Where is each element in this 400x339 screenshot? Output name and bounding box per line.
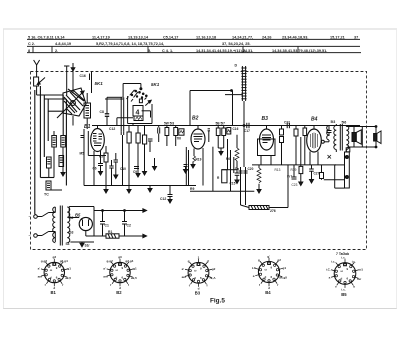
svg-text:ak,5: ak,5	[65, 276, 71, 280]
svg-text:13,19,13,14: 13,19,13,14	[128, 36, 149, 40]
svg-text:ak,5: ak,5	[131, 276, 137, 280]
capacitor C6	[93, 160, 104, 175]
svg-text:C12: C12	[109, 127, 115, 131]
svg-text:R: R	[217, 176, 220, 180]
svg-text:d: d	[194, 276, 196, 280]
svg-text:2.: 2.	[55, 49, 58, 53]
svg-text:am: am	[182, 275, 187, 279]
svg-text:d: d	[50, 276, 52, 280]
tube B4	[307, 117, 322, 165]
svg-text:ak,g5: ak,g5	[279, 276, 287, 280]
svg-text:ω: ω	[265, 268, 268, 272]
svg-text:d: d	[341, 277, 343, 281]
heater rail	[70, 242, 94, 248]
svg-text:9: 9	[122, 266, 124, 270]
hatched resistor to ground	[257, 165, 261, 193]
svg-text:23,34,46,18,93.: 23,34,46,18,93.	[282, 36, 308, 40]
tube B2	[191, 116, 205, 159]
svg-text:i.c.: i.c.	[352, 259, 356, 263]
svg-text:i.c.: i.c.	[331, 259, 335, 263]
oscillator bracket	[123, 84, 142, 91]
tuning gang C1a	[57, 88, 86, 118]
resistor + ground x300	[299, 137, 303, 186]
HT+ rail	[94, 209, 147, 212]
svg-text:B2: B2	[116, 290, 122, 295]
svg-text:am: am	[103, 275, 108, 279]
svg-text:B1: B1	[51, 290, 57, 295]
B3 screen caps C16 C20	[235, 126, 254, 208]
wire switch top to bracket	[122, 90, 124, 97]
parts table row 1 text	[28, 36, 358, 40]
svg-text:24,26: 24,26	[262, 36, 272, 40]
svg-text:Da: Da	[235, 167, 239, 171]
components right of B2	[216, 121, 239, 169]
band switch contacts	[127, 90, 152, 106]
svg-text:B5: B5	[341, 292, 347, 297]
coil L1	[52, 131, 57, 178]
dropper ladder resistor	[235, 64, 247, 127]
tube base diagram B1	[38, 255, 72, 295]
svg-text:11,4,17,19: 11,4,17,19	[92, 36, 110, 40]
left column wires	[35, 86, 67, 214]
filter capacitor C2	[122, 211, 131, 237]
svg-text:B1: B1	[84, 124, 91, 130]
svg-text:~: ~	[29, 215, 31, 219]
svg-text:ω: ω	[116, 268, 119, 272]
svg-text:37: 37	[354, 36, 358, 40]
svg-text:R19: R19	[196, 158, 202, 162]
svg-text:5,R2,7,79,14,71,6,8, 14, 18,73: 5,R2,7,79,14,71,6,8, 14, 18,73,75,72,14,	[96, 42, 164, 46]
ground	[136, 170, 140, 177]
svg-text:C17: C17	[244, 129, 250, 133]
svg-text:6: 6	[347, 277, 349, 281]
svg-text:g1: g1	[133, 267, 137, 271]
svg-text:C16: C16	[233, 127, 239, 131]
svg-text:R13: R13	[275, 168, 281, 172]
svg-text:R5: R5	[99, 155, 103, 159]
coil TC	[44, 181, 62, 197]
svg-text:f: f	[45, 283, 47, 287]
oscillator box	[128, 96, 152, 124]
svg-text:B2: B2	[192, 116, 199, 122]
svg-text:g: g	[188, 259, 190, 263]
external speaker LS2	[374, 127, 381, 148]
tube base diagram B3	[182, 255, 217, 295]
IF cluster boxes	[120, 126, 153, 186]
svg-text:C23: C23	[292, 183, 298, 187]
B2 cathode cluster	[184, 147, 213, 192]
svg-text:tar: tar	[357, 277, 362, 281]
parts table row 2 text	[28, 42, 251, 46]
svg-text:g': g'	[207, 259, 210, 263]
svg-text:g2,g4: g2,g4	[60, 259, 68, 263]
wire gang2 link	[117, 118, 133, 126]
svg-text:5 16. C6,7,8,11 L9,14: 5 16. C6,7,8,11 L9,14	[28, 36, 65, 40]
tone capacitor	[327, 126, 332, 159]
loudspeaker LS1	[352, 127, 361, 148]
component x321	[320, 165, 324, 180]
svg-text:C27: C27	[314, 172, 320, 176]
B1 grid IF coil	[84, 93, 91, 129]
svg-text:f: f	[62, 283, 64, 287]
svg-text:B4: B4	[311, 117, 318, 123]
svg-text:am: am	[38, 275, 43, 279]
ground	[114, 153, 119, 179]
box R-coupling	[217, 170, 237, 183]
svg-text:f: f	[207, 284, 209, 288]
wires to external speaker	[346, 126, 377, 148]
svg-text:ω: ω	[341, 269, 344, 273]
antenna	[34, 60, 40, 77]
capacitor C12g to ground	[160, 186, 173, 204]
svg-text:C 2.: C 2.	[28, 42, 35, 46]
svg-text:rk,A: rk,A	[210, 276, 217, 280]
svg-text:C8: C8	[100, 110, 104, 114]
output transformer T2	[331, 120, 349, 152]
lightning arrestor	[34, 77, 45, 95]
capacitor C17 series	[244, 123, 250, 133]
svg-text:g2: g2	[212, 267, 216, 271]
wire	[122, 144, 124, 186]
svg-text:6: 6	[271, 275, 273, 279]
svg-text:D: D	[235, 64, 238, 68]
grid resistor R-B4	[303, 126, 307, 165]
svg-text:LC: LC	[252, 266, 257, 270]
wire top link	[105, 97, 124, 131]
svg-text:a': a'	[182, 267, 185, 271]
svg-text:g1: g1	[67, 267, 71, 271]
lower bus	[190, 190, 254, 192]
svg-text:g3: g3	[118, 255, 122, 259]
svg-text:5.: 5.	[148, 49, 151, 53]
svg-text:9: 9	[347, 267, 349, 271]
tube base diagram B4	[252, 254, 287, 295]
capacitor C4	[208, 129, 210, 142]
dashed enclosure border	[31, 72, 367, 250]
capacitor C23	[292, 165, 297, 179]
svg-text:B3: B3	[195, 291, 201, 296]
svg-text:d: d	[116, 276, 118, 280]
svg-text:C5,14,17: C5,14,17	[163, 36, 178, 40]
svg-text:f: f	[189, 284, 191, 288]
svg-text:B3: B3	[262, 116, 269, 122]
svg-text:M5: M5	[80, 152, 85, 156]
filter capacitor C1	[100, 211, 109, 237]
svg-text:ω: ω	[194, 268, 197, 272]
svg-text:37, 54,23,24, 25.: 37, 54,23,24, 25.	[222, 42, 251, 46]
svg-text:C1: C1	[105, 224, 109, 228]
svg-text:6: 6	[200, 276, 202, 280]
labels under screen bus	[275, 168, 298, 187]
svg-text:C2: C2	[127, 224, 131, 228]
wire B2 screen verticals	[226, 150, 234, 191]
svg-text:~: ~	[29, 234, 31, 238]
svg-text:6: 6	[56, 276, 58, 280]
svg-text:ω: ω	[50, 268, 53, 272]
svg-text:g2: g2	[277, 258, 281, 262]
coil L2	[61, 136, 66, 171]
ground	[143, 165, 147, 175]
svg-text:3.: 3.	[243, 49, 246, 53]
ground	[148, 186, 152, 193]
svg-text:5B 5I7: 5B 5I7	[216, 121, 226, 125]
resistor R76	[249, 165, 288, 213]
svg-text:12,16,13,18: 12,16,13,18	[196, 36, 216, 40]
svg-text:S3: S3	[70, 231, 74, 235]
svg-text:S1r: S1r	[85, 244, 91, 248]
ground	[153, 158, 157, 170]
ground	[61, 170, 65, 176]
svg-text:a': a'	[38, 267, 41, 271]
wire gang bottom	[72, 116, 74, 126]
ground	[127, 186, 131, 194]
svg-text:5I3: 5I3	[331, 120, 336, 124]
rectifier tube B5	[69, 207, 94, 237]
svg-text:9: 9	[271, 266, 273, 270]
capacitor C16	[80, 72, 92, 94]
capacitor near B1 right	[109, 160, 113, 186]
svg-text:g2,g4: g2,g4	[125, 259, 133, 263]
svg-text:C12: C12	[160, 197, 166, 201]
svg-text:15,17,21: 15,17,21	[330, 36, 345, 40]
parts table row 3 text	[28, 49, 327, 53]
resistor R14	[280, 126, 284, 165]
svg-text:R9: R9	[190, 187, 194, 191]
svg-text:o: o	[335, 285, 337, 289]
svg-text:B5: B5	[75, 213, 81, 218]
feed down arrow	[71, 63, 75, 93]
svg-text:Fig.5: Fig.5	[210, 298, 225, 305]
earth T-post	[64, 66, 69, 95]
ground	[104, 186, 108, 194]
capacitor C32 series	[284, 120, 290, 128]
svg-text:7III: 7III	[177, 137, 182, 141]
svg-text:4: 4	[136, 110, 140, 117]
svg-text:d: d	[265, 275, 267, 279]
svg-text:5K1: 5K1	[151, 82, 160, 87]
coil L3	[47, 157, 52, 178]
svg-text:C20: C20	[248, 167, 254, 171]
tube B1 shield box	[80, 131, 107, 156]
svg-text:276: 276	[270, 209, 276, 213]
grid row components	[158, 121, 184, 146]
svg-text:g: g	[258, 258, 260, 262]
svg-text:C10: C10	[120, 167, 126, 171]
svg-text:g': g'	[267, 254, 270, 258]
svg-text:i.C.: i.C.	[326, 268, 331, 272]
capacitor C8	[100, 97, 110, 125]
svg-text:g1: g1	[283, 266, 287, 270]
resistor R5	[99, 146, 108, 186]
resistor R16	[294, 126, 298, 165]
svg-text:f: f	[277, 283, 279, 287]
svg-text:b: b	[353, 285, 355, 289]
svg-text:14,24,21,77,: 14,24,21,77,	[232, 36, 253, 40]
tube base diagram B2	[103, 255, 137, 295]
svg-text:4-8,44,19: 4-8,44,19	[55, 42, 71, 46]
svg-text:a: a	[329, 276, 331, 280]
svg-text:R1: R1	[108, 230, 112, 234]
svg-text:9: 9	[200, 266, 202, 270]
svg-text:5K1: 5K1	[95, 81, 104, 86]
grid rail bus	[92, 125, 360, 127]
svg-text:i.c.: i.c.	[341, 256, 345, 260]
svg-text:9: 9	[56, 266, 58, 270]
svg-text:a': a'	[103, 267, 106, 271]
capacitor C22	[346, 148, 350, 152]
choke coil	[321, 126, 329, 144]
resistor R11 hatched	[230, 135, 240, 186]
screen bus	[252, 164, 336, 166]
svg-text:a: a	[253, 274, 255, 278]
tube base diagram B5	[326, 256, 363, 297]
svg-text:g,g2: g,g2	[41, 259, 48, 263]
svg-text:INT: INT	[287, 175, 292, 179]
svg-text:5W 5I3: 5W 5I3	[164, 121, 174, 125]
svg-text:S4: S4	[66, 242, 70, 246]
svg-text:1: 1	[198, 255, 200, 259]
parts table rules	[27, 39, 361, 52]
svg-text:C 4. 1.: C 4. 1.	[162, 49, 173, 53]
power transformer T1	[35, 206, 74, 246]
svg-text:5I6: 5I6	[342, 120, 347, 124]
mains terminal 2	[29, 232, 49, 239]
B+ rail	[190, 90, 242, 126]
capacitor C12	[109, 127, 124, 144]
svg-text:ω1: ω1	[359, 268, 364, 272]
HT- rail with resistor R1	[86, 230, 147, 238]
coil L4	[59, 156, 64, 167]
svg-text:f: f	[128, 283, 130, 287]
svg-text:6: 6	[122, 276, 124, 280]
svg-text:C16: C16	[80, 74, 86, 78]
tube B3	[258, 116, 276, 165]
mains terminal 1	[29, 213, 49, 220]
field coil box	[324, 152, 350, 188]
wire osc to rail	[132, 124, 134, 126]
svg-text:f: f	[110, 283, 112, 287]
svg-text:g3: g3	[53, 255, 57, 259]
capacitor C27	[309, 165, 319, 183]
svg-text:B4: B4	[265, 290, 271, 295]
svg-text:g,g2: g,g2	[107, 259, 114, 263]
svg-text:R6: R6	[226, 157, 230, 161]
svg-text:f: f	[259, 283, 261, 287]
chassis bus	[84, 185, 196, 187]
tube B1	[84, 124, 104, 185]
svg-text:TC: TC	[44, 193, 49, 197]
svg-text:8: 8	[28, 49, 30, 53]
svg-text:C6: C6	[93, 167, 97, 171]
wire	[83, 129, 85, 186]
